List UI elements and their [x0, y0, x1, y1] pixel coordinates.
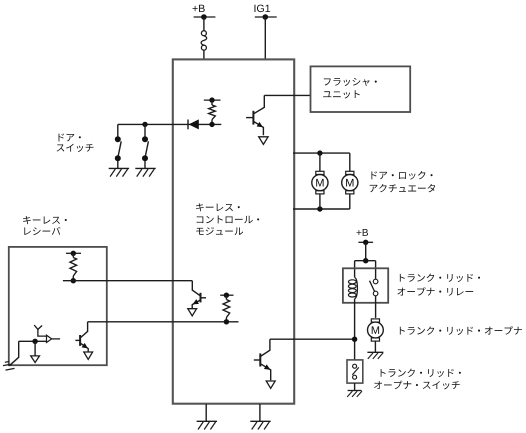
power terminal +B (trunk relay): [356, 229, 373, 245]
diode D1 (door switch input): [188, 119, 199, 129]
label: trunk lid opener switch: [374, 369, 461, 390]
resistor R3 (receiver pull-up): [66, 251, 81, 284]
antenna: [34, 325, 46, 336]
junction: actuator bottom: [317, 206, 322, 211]
wire: door lock actuator top: [293, 152, 350, 154]
motor M1 (door lock actuator left): [312, 153, 328, 209]
label: trunk lid opener relay: [397, 274, 480, 296]
transistor Q1 (flasher driver, NPN): [246, 95, 264, 135]
wire: +B down: [203, 17, 205, 31]
label: trunk lid opener: [400, 326, 522, 335]
wire: door switch input (node A): [118, 123, 222, 125]
resistor R1 (pull-up, door input): [204, 97, 221, 127]
flasher unit (box): [311, 66, 411, 112]
wire: relay coil down to trunk switch: [354, 299, 356, 360]
relay coil L1: [348, 277, 357, 298]
keyless receiver (box): [9, 247, 107, 365]
trunk lid opener switch (box): [347, 360, 363, 383]
ground (antenna input, triangle): [31, 341, 40, 362]
label: keyless receiver: [23, 216, 67, 235]
wire: Q1 collector to flasher unit: [264, 94, 310, 96]
ground (module right pin): [250, 404, 270, 430]
transistor Q4 (receiver output, NPN): [75, 322, 88, 352]
internal ground (Q3 emitter): [266, 381, 275, 388]
trunk lid opener switch contacts: [352, 364, 359, 379]
ground (door switch SW2): [135, 168, 155, 176]
motor M2 (door lock actuator right): [342, 153, 358, 209]
label: door switch: [57, 134, 94, 152]
trunk lid opener relay (box): [343, 268, 388, 303]
amplifier A1: [47, 335, 61, 342]
wire: receiver output to module (node B): [63, 280, 192, 282]
keyless control module U1 (box): [173, 59, 294, 403]
ground (trunk switch): [347, 383, 362, 397]
ground (trunk motor): [367, 352, 383, 359]
wire: IG1 down to module: [264, 17, 266, 59]
ground (door switch SW1): [109, 168, 129, 176]
wire: +B to relay: [355, 242, 376, 279]
chassis ground (receiver case corner): [3, 341, 19, 370]
resistor R2 (pull-up): [220, 293, 233, 325]
circuit breaker (fuse) on +B line: [201, 31, 207, 60]
motor M3 (trunk lid opener): [368, 319, 384, 352]
door switch SW1: [115, 124, 121, 168]
door switch SW2: [142, 124, 148, 168]
junction: door switch branch: [142, 122, 147, 127]
label: door lock actuator: [370, 171, 435, 192]
label: keyless control module: [196, 203, 259, 235]
transistor Q2 (receiver input, NPN mirrored): [192, 281, 206, 309]
internal ground (Q1 emitter): [259, 137, 268, 145]
relay switch contact: [370, 279, 378, 296]
power terminal IG1: [254, 5, 276, 20]
power terminal +B (top): [193, 5, 216, 20]
wire: door lock actuator bottom: [293, 208, 350, 210]
wire: relay switch to trunk motor: [375, 296, 377, 318]
wire: Q3 collector to trunk circuit: [270, 338, 355, 340]
label: flasher unit: [323, 78, 377, 99]
junction: antenna input: [19, 339, 47, 344]
internal ground (Q4 emitter): [84, 352, 93, 359]
junction: actuator top: [317, 150, 322, 155]
wire: receiver collector to module R2 (node C): [88, 321, 239, 323]
internal ground (Q2 emitter): [188, 309, 197, 316]
junction: coil / module / switch: [352, 337, 357, 342]
transistor Q3 (trunk relay driver, NPN): [254, 339, 271, 380]
ground (module left pin): [197, 404, 217, 430]
